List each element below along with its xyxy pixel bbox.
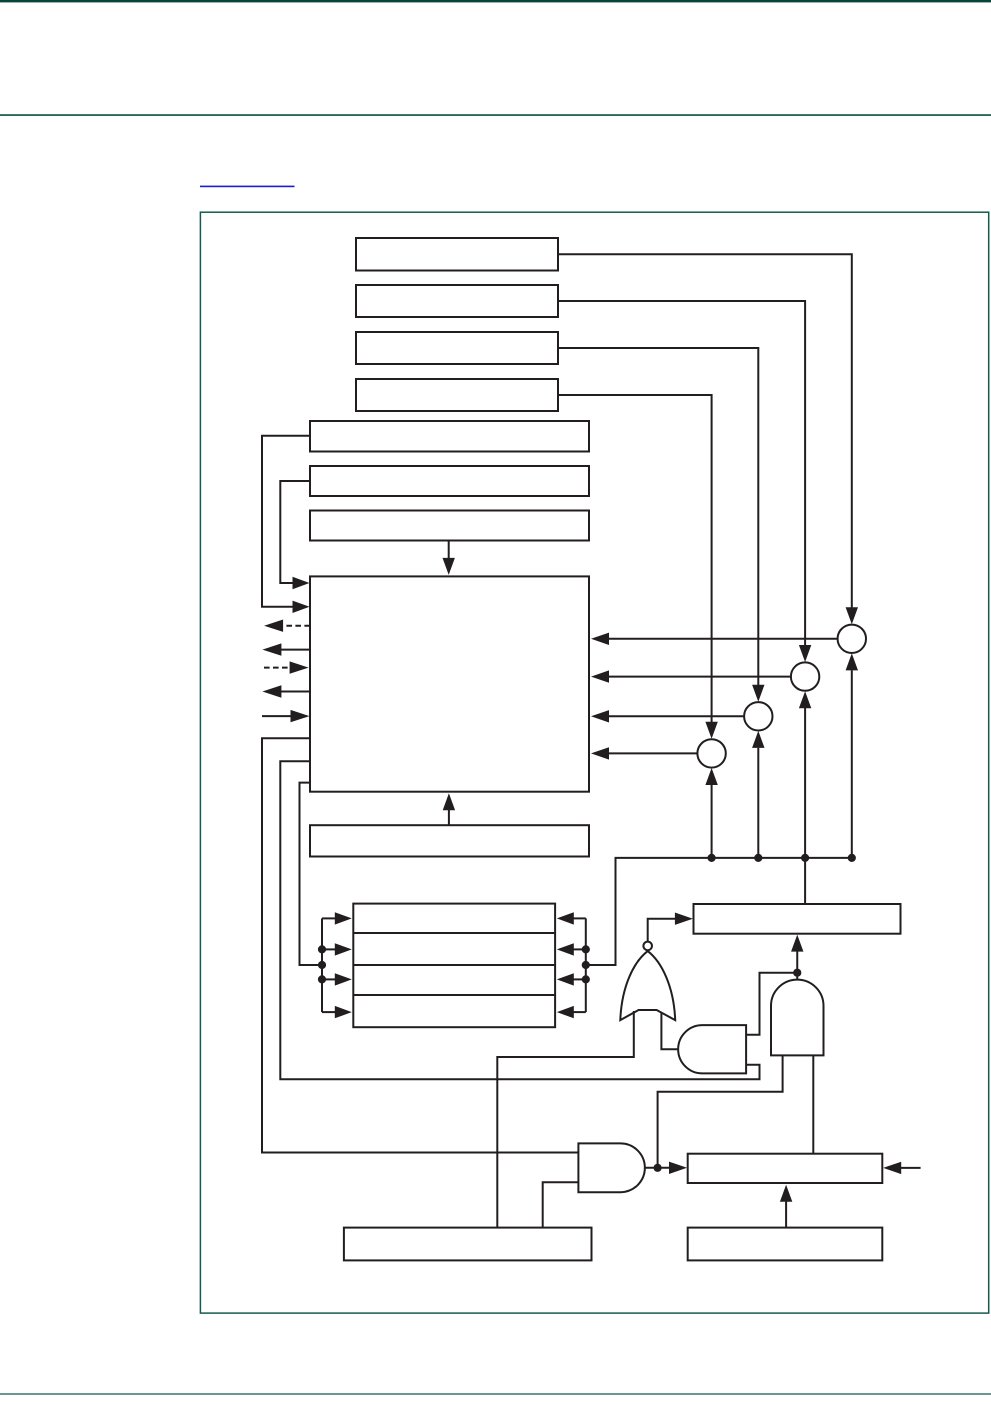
stack right feed 1 [574,917,586,919]
wire W1 to U1 left [262,436,310,607]
bus junction dot 1 [708,854,716,862]
wire bus to S1 bottom [851,670,853,858]
wire bus to REG1 top [804,858,806,904]
AND1 output junction dot [793,969,801,977]
stack divider 1 [353,932,555,934]
AND gate U5 (bottom) [578,1143,644,1192]
arrow into stack right 2 [557,943,574,955]
dashed output wire from U1 [283,625,310,627]
wire W2 to U1 left [280,481,310,583]
register box R3 [356,332,558,364]
arrow into U1 left 1 [293,577,310,589]
arrow into S1 bottom [846,653,858,670]
stack left bus wire [321,918,323,1012]
arrow into U1 right 1 [591,633,609,645]
arrow into S1 top [846,607,858,624]
arrow into stack right 1 [557,912,574,924]
wire S3 to U1 [609,715,744,717]
arrow into S2 bottom [799,691,811,708]
dashed input wire to U1 [264,667,291,669]
output wire from U1 (solid) [280,649,310,651]
wire S4 to U1 [609,752,698,754]
external input stub wire [901,1167,921,1169]
arrow into S4 bottom [705,768,717,785]
output arrowhead 2 [262,685,281,697]
sync circle S4 [697,739,725,767]
stack divider 2 [353,964,555,966]
wire U1 to stack left bus [300,783,323,965]
arrow into stack left 2 [335,943,352,955]
arrow into stack right 3 [557,973,574,985]
arrow into REG2 right [883,1162,901,1174]
wire R1 to S1 [558,254,852,607]
arrow into stack right 4 [557,1006,574,1018]
wide register box W2 [310,466,589,496]
bus junction dot 2 [754,854,762,862]
arrow into stack left 1 [335,912,352,924]
wire U1 to AND2 lower input [280,761,759,1079]
stack right bus dot 2 [582,961,590,969]
wire bus to S3 bottom [757,748,759,858]
stack right feed 2 [574,948,586,950]
bus junction dot 3 [801,854,809,862]
mask register box [310,825,589,856]
bottom-right box [688,1228,883,1261]
hyperlink underline [200,186,295,188]
wire NOR output to REG1 [648,919,676,942]
register box R4 [356,379,558,411]
AND gate U4 (pointing up) [771,980,824,1056]
sync circle S2 [791,662,819,690]
wide register box W1 [310,421,589,452]
wire bus to S4 bottom [711,785,713,858]
stack left feed 3 [322,978,335,980]
stack left feed 4 [322,1011,335,1013]
arrow into REG2 bottom [780,1185,792,1202]
stack right bus dot 3 [582,975,590,983]
stack left bus dot 2 [318,961,326,969]
input arrowhead [291,710,310,722]
arrow into S4 top [705,722,717,739]
wire AND3 output to REG2 [645,1167,672,1169]
register box R1 (top) [356,238,558,271]
wire mask box to U1 bottom [448,810,450,825]
AND3 output junction dot [654,1164,662,1172]
stack divider 3 [353,994,555,996]
bus junction dot 4 [848,854,856,862]
arrow into REG1 left [675,913,693,925]
arrow into U1 bottom [443,793,455,810]
bottom-left box [344,1228,592,1261]
4-register stack [353,904,555,1028]
arrow into S3 bottom [752,731,764,748]
wide register box W3 [310,511,589,541]
wire REG2 to AND1 right input [812,1055,814,1153]
wire R3 to S3 [558,348,758,685]
stack left feed 1 [322,917,335,919]
page top bar [0,0,991,2]
stack left bus dot 3 [318,975,326,983]
stack right feed 4 [574,1011,586,1013]
register box REG2 (lower right) [688,1154,883,1183]
sync circle S1 [838,625,866,653]
wire bus to S2 bottom [804,708,806,858]
wire S2 to U1 [609,676,791,678]
input wire to U1 (solid) [262,715,292,717]
dashed input arrowhead [290,661,309,673]
footer rule [0,1393,991,1394]
register box R2 [356,285,558,317]
figure frame [200,212,988,1313]
arrow into U1 left 2 [293,601,310,613]
arrow into U1 right 3 [591,710,609,722]
arrow into stack left 3 [335,973,352,985]
NOR output bubble [643,942,652,951]
wire AND3 output branch to AND1 left input [658,1055,783,1168]
wire bottom-left box to AND3 lower input [543,1182,579,1227]
main block U1 [310,576,589,791]
stack right bus dot 1 [582,945,590,953]
arrow into S2 top [799,645,811,662]
dashed output arrowhead [264,620,283,632]
wire bottom-left box to NOR left input [497,1011,634,1228]
arrow into REG2 left [669,1162,687,1174]
wire R4 to S4 [558,395,712,722]
stack right bus wire [585,918,587,1012]
NOR gate U2 [620,951,675,1020]
arrow into U1 top [443,558,455,575]
arrow into stack left 4 [335,1006,352,1018]
wire bottom-right box to REG2 [785,1202,787,1228]
wire AND1 output to REG1 bottom [796,951,798,979]
arrow into U1 right 4 [591,747,609,759]
wire W3 down to U1 top [448,541,450,559]
stack left bus dot 1 [318,945,326,953]
arrow into U1 right 2 [591,670,609,682]
wire S1 to U1 [609,638,838,640]
stack right feed 3 [574,978,586,980]
horizontal bus wire [586,858,852,965]
header rule [0,114,991,116]
register box REG1 (right) [694,904,901,934]
output wire from U1 (solid) 2 [280,691,310,693]
arrow into REG1 bottom [791,935,803,952]
wire U1 to AND3 upper input [262,738,578,1152]
arrow into S3 top [752,685,764,702]
stack left feed 2 [322,948,335,950]
sync circle S3 [744,702,772,730]
wire AND2 output to NOR right input [661,1013,678,1050]
wire R2 to S2 [558,301,805,645]
AND gate U3 (mirrored) [678,1025,746,1073]
output arrowhead 1 [262,643,281,655]
wire AND1 output branch to AND2 upper input [746,973,797,1035]
